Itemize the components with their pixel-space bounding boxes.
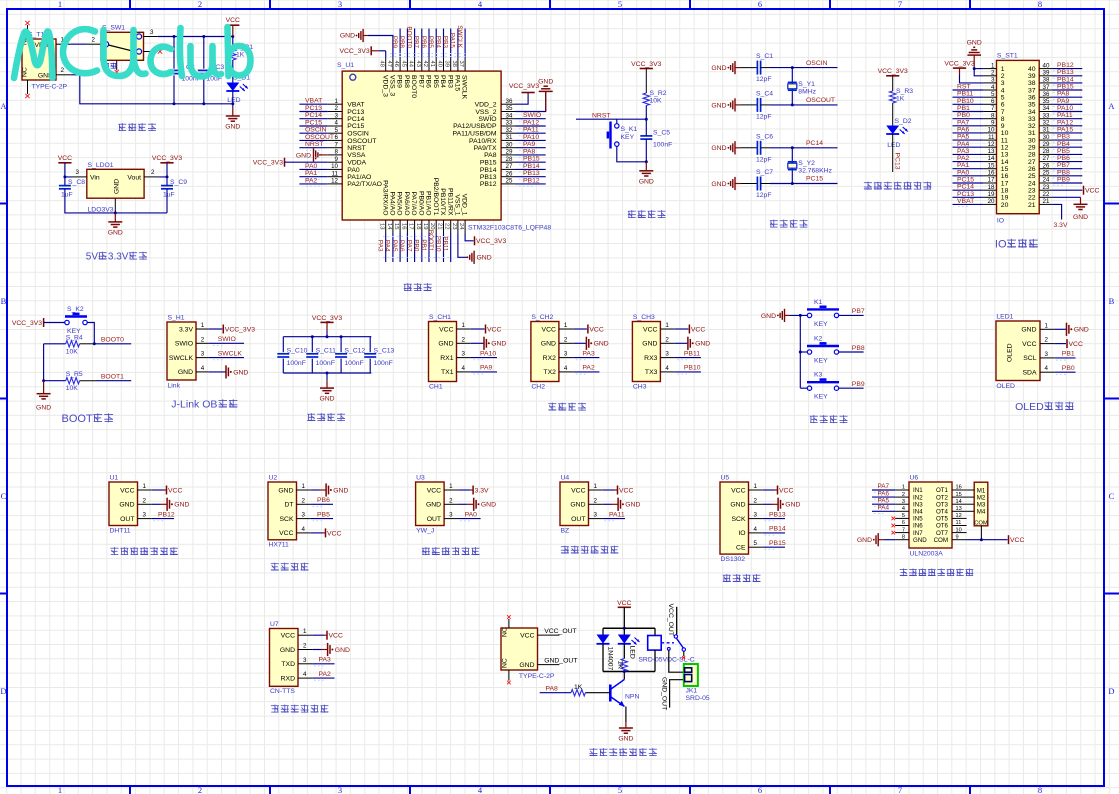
svg-text:S_C11: S_C11 (316, 347, 336, 354)
svg-text:VCC: VCC (439, 326, 453, 333)
svg-text:PB3: PB3 (442, 36, 449, 49)
wire (675, 328, 689, 330)
net label PA6 (878, 490, 890, 497)
svg-text:IN5: IN5 (913, 516, 923, 523)
svg-text:1uF: 1uF (61, 192, 73, 199)
svg-text:RX1: RX1 (440, 355, 453, 362)
wire (203, 37, 205, 69)
net label PB7 (413, 36, 420, 49)
net label PA15 (1057, 126, 1073, 133)
svg-text:C: C (1109, 491, 1115, 501)
svg-text:3: 3 (754, 512, 758, 519)
svg-text:GND: GND (711, 102, 726, 109)
svg-text:8: 8 (1038, 0, 1042, 9)
svg-text:PB1: PB1 (1062, 351, 1075, 358)
svg-text:VCC: VCC (542, 326, 556, 333)
svg-text:3: 3 (462, 351, 466, 358)
svg-text:14: 14 (956, 499, 962, 505)
svg-text:6: 6 (902, 520, 905, 526)
svg-text:PA15: PA15 (1057, 126, 1073, 133)
wire (763, 503, 772, 505)
wire (414, 234, 416, 263)
svg-text:PA5: PA5 (957, 134, 970, 141)
label 开关 (103, 63, 117, 69)
net label BOOT1 (101, 373, 124, 380)
net label OSCIN (305, 127, 327, 134)
svg-text:PB10: PB10 (957, 98, 974, 105)
wire (406, 234, 408, 263)
svg-text:4: 4 (991, 84, 995, 91)
wire (471, 371, 497, 373)
svg-text:34: 34 (1028, 109, 1036, 116)
svg-text:1: 1 (449, 483, 453, 490)
power 3.3V (473, 486, 489, 495)
LED relay (618, 628, 640, 659)
wire (953, 125, 984, 127)
wire (960, 75, 984, 83)
svg-text:GND: GND (233, 369, 248, 376)
svg-text:GND: GND (519, 662, 534, 669)
wire (203, 75, 205, 104)
svg-text:PB11: PB11 (684, 350, 700, 357)
svg-text:5: 5 (991, 91, 995, 98)
svg-text:19: 19 (988, 191, 995, 198)
svg-text:37: 37 (1043, 84, 1050, 91)
svg-text:TYPE-C-2P: TYPE-C-2P (32, 84, 68, 91)
wire (839, 387, 864, 389)
wire (94, 343, 131, 345)
svg-text:LED1: LED1 (996, 314, 1013, 321)
power VCC (1084, 186, 1100, 195)
svg-text:3: 3 (201, 351, 205, 358)
junction (645, 160, 648, 163)
svg-text:PB3: PB3 (1057, 134, 1070, 141)
svg-text:D: D (0, 686, 6, 696)
switch S_SW1 (87, 25, 158, 71)
svg-text:PA4: PA4 (957, 141, 970, 148)
wire (516, 161, 546, 163)
svg-text:S_Y2: S_Y2 (798, 160, 815, 167)
net label PA10 (480, 350, 496, 357)
power VCC_3V3 (253, 158, 285, 167)
ground (618, 498, 640, 511)
wire (763, 546, 785, 548)
svg-text:VCC_OUT: VCC_OUT (667, 604, 674, 636)
wire (471, 342, 484, 344)
ground (857, 533, 883, 546)
svg-text:GND: GND (438, 341, 453, 348)
wire (770, 183, 838, 185)
svg-text:38: 38 (1028, 80, 1036, 87)
svg-text:KEY: KEY (814, 321, 828, 328)
svg-text:10K: 10K (66, 348, 79, 355)
svg-text:PB4: PB4 (439, 75, 446, 88)
wire (763, 489, 775, 491)
wire (1052, 82, 1082, 84)
svg-text:17: 17 (1001, 180, 1009, 187)
wire (1054, 328, 1066, 330)
svg-text:9: 9 (991, 120, 995, 127)
wire (516, 147, 546, 149)
svg-text:PA4: PA4 (878, 505, 890, 512)
capacitor S_C12 (335, 347, 365, 357)
svg-text:PA9: PA9 (523, 141, 536, 148)
wire (399, 234, 401, 263)
svg-text:Vin: Vin (90, 175, 100, 182)
net label PB15 (769, 540, 786, 547)
svg-text:S_C5: S_C5 (653, 130, 670, 137)
ground (688, 337, 710, 350)
svg-text:Link: Link (168, 383, 181, 390)
wire (953, 139, 984, 141)
wire (385, 51, 387, 58)
net label PA6 (957, 126, 970, 133)
svg-text:37: 37 (458, 61, 464, 67)
svg-text:12pF: 12pF (756, 76, 772, 83)
svg-text:SCK: SCK (732, 516, 746, 523)
svg-text:S_CH3: S_CH3 (633, 314, 655, 321)
svg-text:12: 12 (956, 513, 962, 519)
wire (282, 337, 284, 353)
svg-text:GND: GND (711, 145, 726, 152)
power VCC (588, 325, 604, 334)
svg-text:GND: GND (319, 396, 334, 403)
svg-text:PB14: PB14 (480, 167, 497, 174)
wire (208, 328, 222, 330)
svg-text:3.3V: 3.3V (108, 252, 129, 263)
svg-text:PA3: PA3 (377, 240, 384, 252)
title 滤波电路 (307, 413, 345, 421)
svg-text:OLED: OLED (996, 383, 1015, 390)
wire (87, 323, 94, 344)
svg-text:VCC: VCC (487, 326, 501, 333)
net label PA1 (305, 170, 318, 177)
svg-text:GND: GND (1074, 327, 1089, 334)
wire (97, 380, 131, 382)
net label PC14 (957, 184, 974, 191)
wire (872, 496, 895, 498)
net label PB7 (852, 308, 865, 315)
svg-text:PA15: PA15 (449, 33, 456, 49)
svg-text:LED: LED (629, 646, 636, 659)
net label PB13 (769, 511, 786, 518)
svg-text:S_R3: S_R3 (896, 88, 913, 95)
net label PB6 (420, 36, 427, 49)
svg-text:A: A (1108, 101, 1115, 111)
svg-text:RX3: RX3 (644, 355, 657, 362)
svg-text:GND: GND (108, 229, 123, 236)
svg-text:PA11: PA11 (609, 511, 625, 518)
svg-text:8: 8 (1001, 116, 1005, 123)
svg-text:22: 22 (444, 223, 450, 229)
svg-text:3: 3 (302, 512, 306, 519)
svg-text:VCC: VCC (589, 326, 603, 333)
net label PB6 (317, 497, 330, 504)
svg-text:GND_OUT: GND_OUT (544, 658, 577, 665)
svg-text:1: 1 (143, 483, 147, 490)
no-ERC mark (158, 49, 162, 53)
svg-text:VSS_3: VSS_3 (389, 75, 396, 96)
svg-text:VCC: VCC (327, 530, 341, 537)
no-ERC mark (115, 70, 119, 74)
svg-text:3: 3 (335, 112, 339, 119)
ground (296, 148, 321, 161)
connector S_CH1 (429, 314, 471, 391)
wire (1052, 118, 1082, 120)
svg-text:5: 5 (754, 540, 758, 547)
svg-text:3.3V: 3.3V (1054, 222, 1068, 229)
net label NRST (305, 141, 324, 148)
net label PB4 (434, 36, 441, 49)
svg-text:NC: NC (502, 627, 509, 637)
net label PA8 (523, 148, 536, 155)
svg-text:VCC_3V3: VCC_3V3 (339, 48, 369, 55)
ground (711, 61, 741, 74)
title 时钟模块 (723, 574, 761, 582)
svg-text:S_C8: S_C8 (68, 179, 85, 186)
svg-text:2: 2 (449, 497, 453, 504)
MCUclub logo (14, 27, 251, 78)
power VCC (617, 600, 631, 608)
wire (299, 132, 327, 134)
svg-text:2: 2 (754, 497, 758, 504)
power VCC_3V3 (223, 325, 255, 334)
key S_K1 (608, 122, 637, 149)
svg-text:1: 1 (564, 322, 568, 329)
wire (312, 663, 334, 665)
wire (326, 373, 328, 380)
wire (158, 163, 167, 177)
ground (586, 337, 608, 350)
svg-text:CH2: CH2 (531, 384, 545, 391)
svg-text:PA3/RX/AO: PA3/RX/AO (381, 180, 388, 215)
svg-text:KEY: KEY (621, 134, 635, 141)
net label PA15 (449, 33, 456, 49)
power VCC_3V3 (878, 68, 908, 76)
svg-text:VCC_3V3: VCC_3V3 (253, 160, 283, 167)
wire (152, 503, 161, 505)
svg-text:PA8: PA8 (484, 152, 497, 159)
svg-text:IN7: IN7 (913, 530, 923, 537)
svg-text:IN3: IN3 (913, 501, 923, 508)
wire (1052, 89, 1082, 91)
wire (299, 125, 327, 127)
wire (573, 342, 586, 344)
net label PB12 (1057, 62, 1074, 69)
svg-text:26: 26 (1028, 166, 1036, 173)
svg-text:YW_J: YW_J (416, 527, 434, 534)
svg-text:IN2: IN2 (913, 494, 923, 501)
svg-text:10: 10 (1001, 130, 1009, 137)
power VCC_3V3 (12, 318, 44, 327)
svg-text:C: C (1, 491, 7, 501)
net label PB8 (852, 345, 865, 352)
junction (63, 175, 66, 178)
wire (166, 177, 168, 186)
svg-text:COM: COM (934, 537, 948, 544)
power VCC (618, 486, 634, 495)
svg-text:35: 35 (506, 105, 513, 112)
svg-text:GND: GND (477, 255, 492, 262)
net label PB12 (158, 511, 175, 518)
wire (44, 343, 66, 345)
svg-text:100nF: 100nF (344, 360, 363, 367)
svg-text:BOOT1: BOOT1 (427, 230, 434, 252)
title 语音播报模块 (271, 705, 329, 713)
capacitor S_C11 (306, 347, 336, 357)
wire (791, 148, 793, 184)
wire (312, 634, 324, 636)
svg-text:PB8: PB8 (403, 75, 410, 88)
svg-text:PB1: PB1 (957, 105, 970, 112)
svg-text:GND: GND (594, 341, 609, 348)
svg-text:32: 32 (506, 127, 513, 134)
svg-text:IN6: IN6 (913, 523, 923, 530)
wire (471, 328, 485, 330)
svg-text:NRST: NRST (347, 145, 366, 152)
ground (108, 213, 123, 237)
wire (340, 359, 342, 373)
svg-text:PB11: PB11 (442, 236, 449, 252)
wire (670, 680, 685, 708)
svg-text:2: 2 (151, 169, 155, 176)
wire (763, 518, 785, 520)
net label PA7 (405, 240, 412, 252)
svg-text:3: 3 (665, 351, 669, 358)
svg-text:BOOT1: BOOT1 (101, 373, 124, 380)
ground (474, 498, 496, 511)
power VCC (327, 631, 343, 640)
wire (1052, 139, 1082, 141)
svg-text:11: 11 (988, 134, 995, 141)
svg-text:TX3: TX3 (645, 369, 658, 376)
svg-text:32: 32 (1043, 120, 1050, 127)
net label PB10 (957, 98, 974, 105)
ground (225, 107, 240, 131)
svg-text:PB12: PB12 (523, 177, 540, 184)
svg-text:23: 23 (1043, 184, 1050, 191)
svg-text:PC14: PC14 (806, 140, 823, 147)
wire (953, 118, 984, 120)
svg-text:NRST: NRST (305, 141, 324, 148)
svg-text:21: 21 (437, 223, 443, 229)
ground (711, 141, 741, 154)
svg-text:SWCLK: SWCLK (169, 355, 194, 362)
wire (1054, 343, 1066, 345)
svg-text:12: 12 (1001, 145, 1009, 152)
svg-text:41: 41 (429, 61, 435, 67)
junction (799, 351, 802, 354)
junction (623, 670, 626, 673)
svg-text:SWIO: SWIO (478, 116, 496, 123)
wire (516, 93, 529, 105)
no-ERC mark (507, 681, 511, 685)
power VCC (167, 486, 183, 495)
svg-text:26: 26 (1043, 162, 1050, 169)
wire (623, 672, 625, 680)
svg-text:PB7: PB7 (413, 36, 420, 49)
svg-text:S_D2: S_D2 (895, 118, 912, 125)
power VCC (326, 528, 342, 537)
wire (299, 183, 327, 185)
svg-text:PA0: PA0 (957, 169, 970, 176)
svg-text:2: 2 (61, 67, 65, 74)
wire (616, 119, 618, 124)
svg-text:PA4: PA4 (384, 240, 391, 252)
svg-text:PB3: PB3 (446, 75, 453, 88)
svg-text:100nF: 100nF (287, 360, 306, 367)
svg-text:24: 24 (458, 223, 464, 230)
svg-text:PB0: PB0 (957, 112, 970, 119)
svg-text:32.768KHz: 32.768KHz (798, 168, 832, 175)
svg-text:OSCIN: OSCIN (305, 127, 327, 134)
wire (953, 168, 984, 170)
svg-text:9: 9 (956, 534, 959, 540)
wire (839, 314, 864, 316)
svg-text:VCC: VCC (329, 633, 343, 640)
wire (573, 357, 599, 359)
net label PB11 (684, 350, 700, 357)
svg-text:2: 2 (198, 0, 202, 9)
ground (467, 251, 492, 264)
net label PB1 (1062, 351, 1075, 358)
title 晶振电路 (770, 220, 808, 228)
svg-text:PA2: PA2 (305, 177, 318, 184)
svg-text:44: 44 (408, 61, 414, 68)
capacitor C2 (168, 64, 195, 74)
svg-text:14: 14 (1001, 159, 1009, 166)
svg-text:B: B (1109, 296, 1115, 306)
power VCC (1067, 339, 1083, 348)
wire (953, 103, 984, 105)
svg-text:PB5: PB5 (317, 511, 330, 518)
title 5V转3.3V电路 (86, 252, 147, 263)
net label PB9 (391, 36, 398, 49)
capacitor S_C13 (364, 347, 394, 357)
junction (980, 538, 983, 541)
svg-text:4: 4 (201, 365, 205, 372)
svg-text:1: 1 (58, 0, 62, 9)
svg-text:10K: 10K (650, 98, 663, 105)
svg-text:PB15: PB15 (523, 156, 540, 163)
svg-text:PB4: PB4 (434, 36, 441, 49)
wire (953, 182, 984, 184)
net label PB6 (1057, 155, 1070, 162)
svg-text:PA11: PA11 (523, 127, 539, 134)
relay coil SRD-05VDC-SL-C (638, 628, 694, 671)
svg-text:31: 31 (1043, 127, 1050, 134)
net label PA1 (957, 162, 970, 169)
wire (573, 328, 587, 330)
wire (603, 671, 655, 673)
svg-text:2: 2 (991, 70, 995, 77)
module U1 DHT11 (109, 475, 152, 535)
svg-text:13: 13 (379, 223, 385, 229)
svg-text:14: 14 (386, 223, 392, 230)
wire (675, 371, 701, 373)
net label PB1 (957, 105, 970, 112)
net label PB0 (413, 239, 420, 252)
svg-text:OLED: OLED (1007, 343, 1014, 362)
svg-text:PA2: PA2 (319, 671, 332, 678)
net label PA3 (582, 350, 595, 357)
svg-text:SWIO: SWIO (175, 341, 193, 348)
title 温湿度检测模块 (110, 547, 177, 555)
net label PB5 (317, 511, 330, 518)
wire (311, 503, 333, 505)
wire (208, 371, 225, 373)
resistor S_R1 (230, 44, 254, 60)
